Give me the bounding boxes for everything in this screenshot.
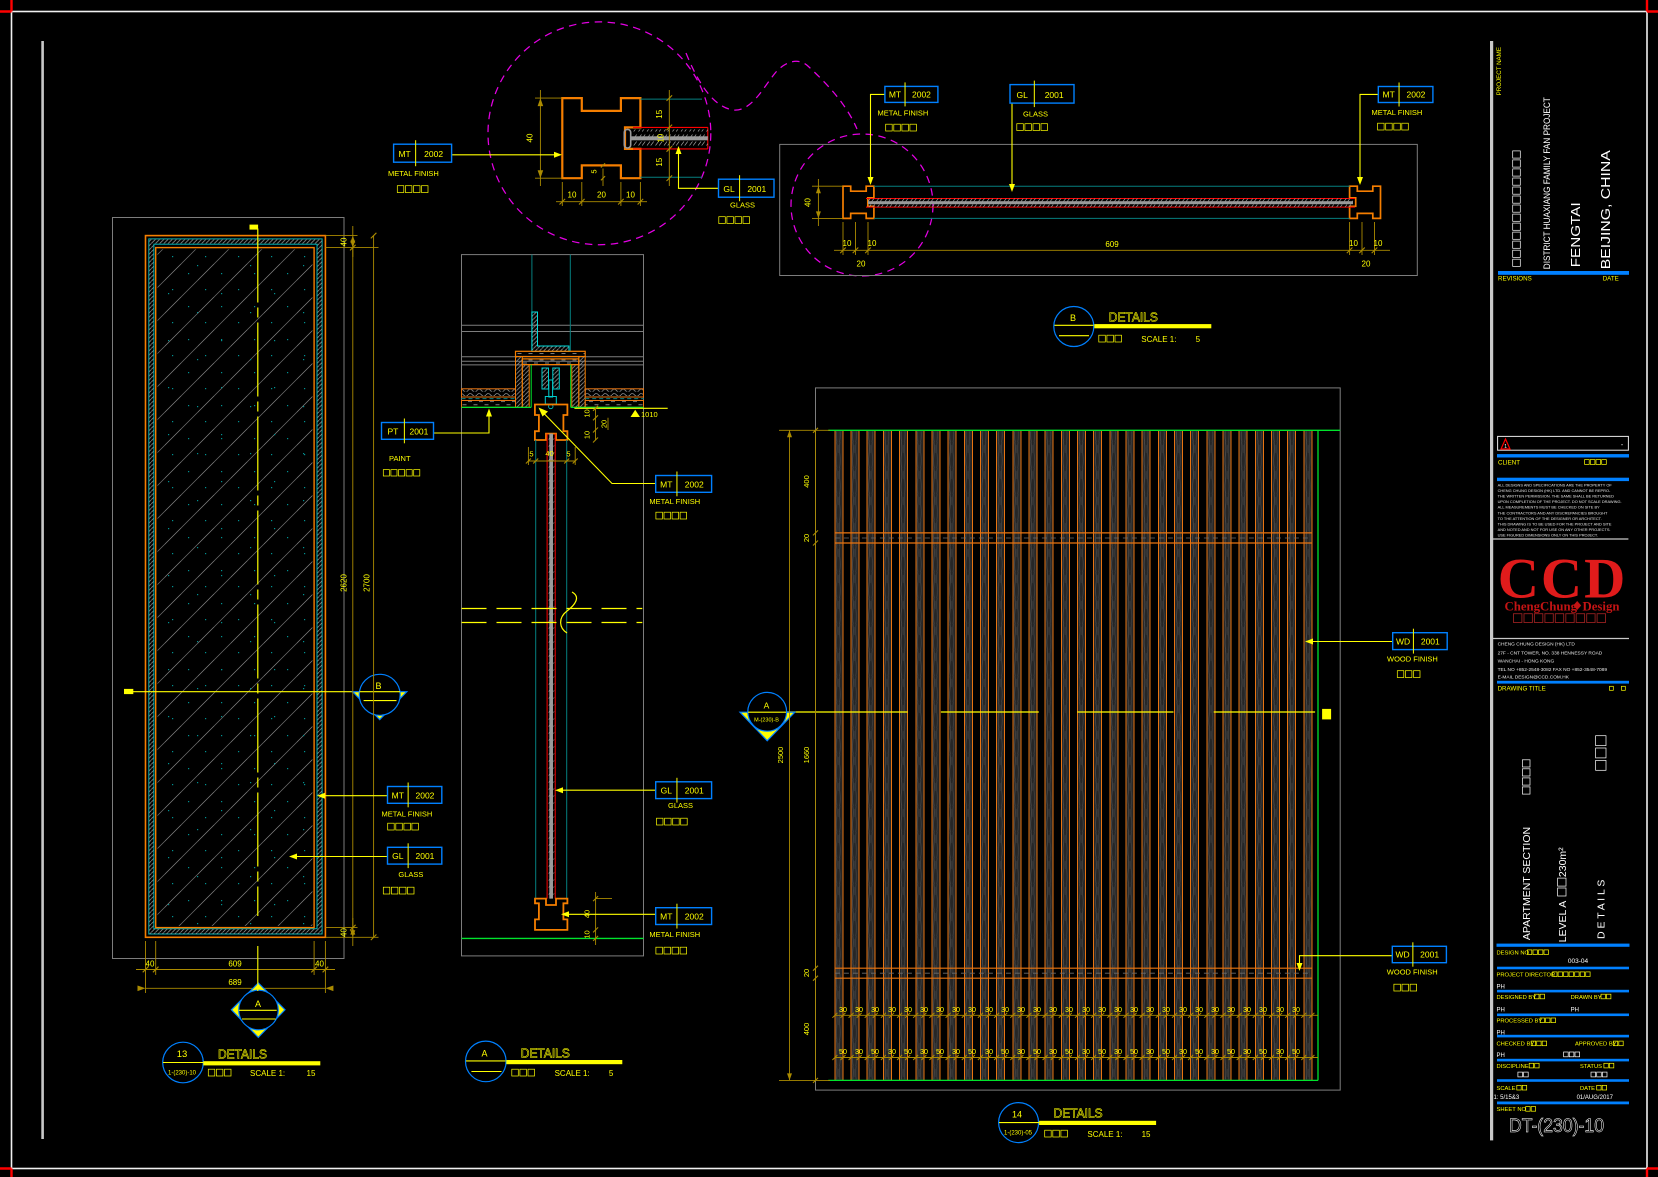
svg-text:10: 10	[1374, 239, 1383, 248]
B bottom dim line	[834, 249, 1390, 251]
svg-text:30: 30	[1179, 1047, 1187, 1056]
svg-text:2002: 2002	[685, 479, 704, 489]
svg-text:30: 30	[871, 1005, 879, 1014]
svg-text:WD: WD	[1395, 950, 1409, 960]
dim 689	[146, 987, 326, 989]
svg-text:400: 400	[802, 1023, 811, 1036]
panel cyan line inner	[154, 244, 317, 929]
section marker A on detail 14	[740, 712, 795, 741]
svg-text:30: 30	[936, 1005, 944, 1014]
svg-text:15: 15	[1142, 1130, 1151, 1139]
dim 2700 right of panel	[373, 236, 375, 938]
svg-text:40: 40	[315, 960, 324, 969]
detail 14 boundary rect	[816, 388, 1341, 1090]
dim 40 left enlarged	[535, 97, 562, 99]
client bar	[1497, 454, 1629, 457]
svg-text:2002: 2002	[1407, 90, 1426, 100]
leader GL 2001 detail13	[292, 856, 388, 858]
B glass core	[868, 201, 1353, 204]
svg-text:689: 689	[228, 978, 242, 987]
svg-text:50: 50	[1001, 1047, 1009, 1056]
leader MT 2002 top-rail	[545, 414, 656, 484]
svg-text:50: 50	[968, 1047, 976, 1056]
svg-text:30: 30	[1211, 1005, 1219, 1014]
dim 10/20/10 below ceiling	[595, 408, 597, 440]
svg-text:2002: 2002	[424, 149, 443, 159]
svg-text:30: 30	[1162, 1005, 1170, 1014]
green floor line	[462, 937, 644, 939]
svg-text:30: 30	[985, 1005, 993, 1014]
svg-text:10: 10	[583, 930, 592, 938]
svg-text:DETAILS: DETAILS	[1109, 311, 1158, 325]
svg-text:5: 5	[566, 450, 570, 459]
drawing title vertical texts	[1596, 736, 1606, 771]
svg-text:WANCHAI - HONG KONG: WANCHAI - HONG KONG	[1498, 659, 1555, 665]
elevation triangle 1010	[631, 410, 641, 417]
client box	[1498, 436, 1629, 450]
small magenta circle on detail B	[791, 134, 933, 276]
svg-text:DESIGN NO: DESIGN NO	[1497, 951, 1530, 957]
svg-text:15: 15	[655, 109, 664, 118]
svg-text:WOOD FINISH: WOOD FINISH	[1387, 655, 1438, 664]
svg-text:WOOD FINISH: WOOD FINISH	[1387, 968, 1438, 977]
green ceiling line right	[571, 406, 644, 408]
svg-text:20: 20	[600, 420, 609, 428]
orange ceiling band 1	[516, 351, 586, 356]
dim 40 top right of panel	[325, 235, 357, 237]
svg-text:30: 30	[920, 1047, 928, 1056]
B leader GL center	[1011, 103, 1013, 186]
svg-text:30: 30	[1243, 1047, 1251, 1056]
svg-text:PROJECT DIRECTOR: PROJECT DIRECTOR	[1497, 973, 1556, 979]
svg-text:2001: 2001	[409, 426, 428, 436]
orange leg left inner	[522, 365, 529, 408]
svg-text:50: 50	[1098, 1047, 1106, 1056]
leader curve to detail B	[686, 53, 857, 129]
svg-text:STATUS: STATUS	[1580, 1064, 1602, 1070]
glass teal edge lines	[535, 440, 537, 899]
svg-text:A: A	[764, 701, 770, 711]
svg-text:PH: PH	[1497, 1008, 1505, 1014]
centerline top flag	[250, 225, 259, 230]
svg-text:THE CONTRACTORS AND ANY DISCRE: THE CONTRACTORS AND ANY DISCREPANCIES BR…	[1498, 510, 1608, 515]
svg-text:BEIJING, CHINA: BEIJING, CHINA	[1599, 149, 1613, 269]
svg-text:30: 30	[1146, 1005, 1154, 1014]
hanger teal lines	[531, 255, 533, 352]
svg-text:5: 5	[1196, 335, 1201, 344]
svg-text:2001: 2001	[1421, 637, 1440, 647]
detail A boundary rect	[462, 255, 644, 956]
slat wood grain	[836, 431, 1311, 1079]
magnifier circle magenta	[488, 22, 711, 245]
upper block bottom line	[1490, 538, 1628, 540]
svg-text:USE FIGURED DIMENSIONS ONLY ON: USE FIGURED DIMENSIONS ONLY ON THIS PROJ…	[1498, 532, 1598, 537]
top rail orange profile	[535, 405, 568, 441]
svg-text:30: 30	[855, 1005, 863, 1014]
ceiling panel left band1	[462, 389, 516, 397]
svg-text:METAL FINISH: METAL FINISH	[382, 810, 433, 819]
svg-text:DT-(230)-10: DT-(230)-10	[1509, 1115, 1604, 1137]
ceiling panel right band2	[585, 401, 643, 408]
svg-text:1660: 1660	[802, 747, 811, 764]
svg-text:30: 30	[1292, 1005, 1300, 1014]
svg-text:GLASS: GLASS	[730, 201, 755, 210]
svg-text:THE WRITTEN PERMISSION. THE SA: THE WRITTEN PERMISSION. THE SAME SHALL B…	[1498, 494, 1614, 499]
svg-text:20: 20	[597, 191, 606, 200]
dim 10/20/10 bottom enlarged	[556, 201, 647, 203]
svg-text:30: 30	[1082, 1047, 1090, 1056]
svg-text:50: 50	[871, 1047, 879, 1056]
wood slats	[835, 431, 1312, 1081]
svg-text:30: 30	[1259, 1005, 1267, 1014]
svg-text:DETAILS: DETAILS	[521, 1047, 570, 1061]
B dim 40 left	[812, 185, 843, 187]
svg-text:20: 20	[802, 969, 811, 977]
extension lines bottom of panel	[145, 941, 147, 993]
svg-text:METAL FINISH: METAL FINISH	[388, 169, 439, 178]
svg-text:30: 30	[855, 1047, 863, 1056]
svg-text:SCALE 1:: SCALE 1:	[1087, 1130, 1122, 1139]
svg-text:10: 10	[843, 239, 852, 248]
detail B boundary rect	[780, 144, 1418, 275]
svg-text:PH: PH	[1497, 1053, 1505, 1059]
svg-text:003-04: 003-04	[1568, 958, 1589, 965]
glass stub core	[631, 136, 708, 140]
B glass red lines	[866, 198, 1355, 200]
svg-text:APPROVED BY: APPROVED BY	[1575, 1042, 1617, 1048]
panel cyan line outer	[149, 239, 322, 934]
svg-text:METAL FINISH: METAL FINISH	[878, 109, 929, 118]
dim chain left detail14	[815, 430, 817, 1080]
svg-text:30: 30	[1276, 1005, 1284, 1014]
svg-text:2001: 2001	[416, 851, 435, 861]
center section line through slats	[787, 711, 908, 713]
svg-text:40: 40	[526, 133, 535, 142]
svg-text:1-(230)-05: 1-(230)-05	[1004, 1131, 1033, 1137]
svg-text:20: 20	[857, 260, 866, 269]
svg-text:30: 30	[1114, 1047, 1122, 1056]
svg-text:PH: PH	[1571, 1008, 1579, 1014]
svg-text:GLASS: GLASS	[668, 801, 693, 810]
svg-text:MT: MT	[889, 89, 901, 99]
svg-text:B: B	[375, 681, 381, 691]
svg-text:2001: 2001	[747, 184, 766, 194]
dim 5/40/5	[528, 460, 575, 462]
svg-text:20: 20	[1362, 260, 1371, 269]
section line B-B through panel	[124, 691, 352, 693]
svg-text:609: 609	[1105, 240, 1119, 249]
svg-text:50: 50	[1162, 1047, 1170, 1056]
svg-text:40: 40	[545, 449, 553, 458]
teal dash strip left	[462, 398, 516, 400]
panel vertical centerline	[257, 229, 259, 917]
svg-text:609: 609	[228, 960, 242, 969]
svg-text:30: 30	[1082, 1005, 1090, 1014]
glass red lines	[546, 434, 548, 899]
svg-text:1: 1	[1504, 444, 1507, 450]
svg-text:REVISIONS: REVISIONS	[1498, 275, 1532, 282]
disclaimer bar	[1497, 478, 1629, 481]
svg-text:30: 30	[1049, 1005, 1057, 1014]
svg-text:PAINT: PAINT	[389, 454, 411, 463]
svg-text:MT: MT	[1383, 90, 1395, 100]
project name chinese vertical	[1513, 151, 1521, 267]
svg-text:40: 40	[146, 960, 155, 969]
bottom rail	[835, 967, 1312, 969]
svg-text:DISCIPLINE: DISCIPLINE	[1497, 1064, 1529, 1070]
svg-text:10: 10	[626, 191, 635, 200]
svg-text:CHENG CHUNG DESIGN (HK) LTD: CHENG CHUNG DESIGN (HK) LTD	[1498, 642, 1576, 648]
svg-text:1-(230)-10: 1-(230)-10	[168, 1071, 197, 1077]
svg-text:30: 30	[1098, 1005, 1106, 1014]
svg-text:SCALE: SCALE	[1497, 1086, 1516, 1092]
svg-text:FENGTAI: FENGTAI	[1569, 202, 1583, 267]
svg-text:2002: 2002	[416, 790, 435, 800]
svg-text:400: 400	[802, 475, 811, 488]
drawing title bar	[1497, 681, 1629, 684]
svg-text:15: 15	[307, 1069, 316, 1078]
warning triangle	[1501, 439, 1510, 449]
svg-text:2700: 2700	[362, 574, 371, 592]
svg-text:MT: MT	[398, 149, 410, 159]
svg-text:5: 5	[590, 169, 599, 173]
svg-text:30: 30	[1049, 1047, 1057, 1056]
revisions bar	[1498, 271, 1629, 275]
svg-text:30: 30	[1276, 1047, 1284, 1056]
svg-text:A: A	[255, 999, 261, 1009]
svg-text:PH: PH	[1497, 984, 1505, 990]
teal dash strip right	[585, 398, 643, 400]
svg-text:30: 30	[888, 1047, 896, 1056]
svg-text:30: 30	[1243, 1005, 1251, 1014]
svg-text:MT: MT	[392, 790, 404, 800]
leader MT 2002 enlarged	[452, 154, 557, 156]
red corner mark top-right	[1647, 0, 1658, 12]
svg-text:PROCESSED BY: PROCESSED BY	[1497, 1019, 1543, 1025]
svg-text:30: 30	[904, 1005, 912, 1014]
title detail 14	[999, 1103, 1039, 1143]
B left profile	[843, 186, 874, 218]
svg-text:2001: 2001	[1420, 950, 1439, 960]
svg-text:30: 30	[1227, 1005, 1235, 1014]
svg-text:14: 14	[1012, 1110, 1022, 1120]
svg-text:40: 40	[340, 237, 349, 246]
svg-text:Design: Design	[1583, 600, 1620, 614]
svg-text:GL: GL	[661, 786, 673, 796]
dim 40 bottom rail	[595, 892, 597, 945]
svg-text:ALL MEASUREMENTS MUST BE CHECK: ALL MEASUREMENTS MUST BE CHECKED ON SITE…	[1498, 505, 1600, 510]
bottom rail orange profile	[535, 899, 567, 930]
green frame lines	[828, 429, 1340, 431]
svg-text:50: 50	[839, 1047, 847, 1056]
svg-text:DATE: DATE	[1603, 275, 1619, 282]
svg-text:10: 10	[868, 239, 877, 248]
svg-text:SCALE 1:: SCALE 1:	[250, 1069, 285, 1078]
svg-text:M-(230)-B: M-(230)-B	[754, 718, 779, 724]
svg-text:27F - CNT TOWER, NO. 338 HENNE: 27F - CNT TOWER, NO. 338 HENNESSY ROAD	[1498, 651, 1603, 657]
glass core	[549, 434, 553, 899]
svg-text:5: 5	[609, 1069, 614, 1078]
svg-text:DATE: DATE	[1580, 1086, 1595, 1092]
svg-text:40: 40	[804, 198, 813, 207]
dim 2620 right of panel	[352, 248, 354, 928]
break squiggle	[561, 592, 577, 633]
break lines	[462, 608, 643, 610]
svg-text:10: 10	[583, 409, 592, 417]
svg-text:50: 50	[1227, 1047, 1235, 1056]
svg-text:50: 50	[1292, 1047, 1300, 1056]
red corner mark bottom-left	[0, 1169, 12, 1177]
svg-text:40: 40	[340, 928, 349, 937]
red corner mark bottom-right	[1647, 1169, 1658, 1177]
svg-text:10: 10	[583, 431, 592, 439]
svg-text:DETAILS: DETAILS	[1054, 1107, 1103, 1121]
svg-text:2002: 2002	[912, 89, 931, 99]
leader GL 2001 enlarged	[679, 150, 719, 188]
green ceiling line left	[462, 406, 532, 408]
svg-text:30: 30	[1211, 1047, 1219, 1056]
svg-text:E-MAIL DESIGN@CCD.COM.HK: E-MAIL DESIGN@CCD.COM.HK	[1498, 675, 1570, 681]
svg-text:50: 50	[1065, 1047, 1073, 1056]
svg-text:30: 30	[1033, 1005, 1041, 1014]
svg-text:GL: GL	[1016, 90, 1028, 100]
centerline end square	[1322, 709, 1331, 720]
orange ceiling band 2	[522, 359, 579, 365]
svg-text:30: 30	[1065, 1005, 1073, 1014]
glass stub red lines	[633, 126, 708, 128]
svg-text:30: 30	[1146, 1047, 1154, 1056]
leader PT 2001	[434, 412, 490, 433]
svg-text:50: 50	[904, 1047, 912, 1056]
svg-text:UPON COMPLETION OF THE PROJECT: UPON COMPLETION OF THE PROJECT. DO NOT S…	[1498, 499, 1622, 504]
svg-text:SCALE 1:: SCALE 1:	[1141, 335, 1176, 344]
svg-text:2001: 2001	[685, 786, 704, 796]
svg-text:TEL NO +852-2548-3082 FAX: TEL NO +852-2548-3082 FAX NO +852-3548-7…	[1498, 667, 1608, 673]
svg-text:GL: GL	[723, 184, 735, 194]
hk chinese logo text	[1514, 614, 1522, 623]
dim 40 bottom right of panel	[352, 918, 354, 946]
title detail B	[1054, 307, 1094, 347]
svg-text:2500: 2500	[776, 747, 785, 764]
svg-text:10: 10	[568, 191, 577, 200]
svg-text:CHENG CHUNG DESIGN (HK) LTD. A: CHENG CHUNG DESIGN (HK) LTD. AND CANNOT …	[1498, 488, 1611, 493]
svg-text:30: 30	[1195, 1005, 1203, 1014]
svg-text:SHEET NO: SHEET NO	[1497, 1107, 1527, 1113]
svg-text:MT: MT	[660, 479, 672, 489]
ceiling panel left band2	[462, 401, 516, 408]
svg-text:30: 30	[920, 1005, 928, 1014]
svg-text:METAL FINISH: METAL FINISH	[649, 497, 700, 506]
cyan clamp device	[542, 368, 549, 389]
panel hatch band	[149, 239, 322, 934]
leader WD 2001 lower	[1300, 956, 1393, 967]
panel inner orange frame	[156, 248, 314, 928]
svg-text:WD: WD	[1396, 637, 1410, 647]
teal face lines enlarged	[640, 98, 702, 100]
glass infill with diagonal hatch and wire dots	[157, 249, 312, 926]
svg-text:5: 5	[529, 450, 533, 459]
B leader MT right	[1360, 94, 1378, 181]
svg-text:13: 13	[177, 1049, 188, 1060]
leader WD 2001 upper	[1308, 641, 1393, 643]
svg-text:CLIENT: CLIENT	[1498, 459, 1520, 466]
B teal face lines	[874, 185, 1350, 187]
svg-text:DRAWING TITLE: DRAWING TITLE	[1498, 685, 1546, 692]
address box top line	[1490, 638, 1629, 640]
svg-text:METAL FINISH: METAL FINISH	[649, 930, 700, 939]
dim 5 notch	[602, 169, 604, 187]
dim 15/10/15 right enlarged	[668, 90, 670, 186]
svg-text:30: 30	[1001, 1005, 1009, 1014]
svg-text:30: 30	[985, 1047, 993, 1056]
svg-text:2620: 2620	[340, 574, 349, 592]
cyan angle bracket	[532, 312, 569, 352]
svg-text:30: 30	[1130, 1005, 1138, 1014]
svg-text:METAL FINISH: METAL FINISH	[1372, 108, 1423, 117]
green liner right	[570, 365, 572, 408]
ceiling panel right band1	[585, 389, 643, 397]
leader MT 2002 detail13	[320, 795, 388, 797]
svg-text:15: 15	[655, 157, 664, 166]
svg-text:THIS DRAWING IS TO BE USED FOR: THIS DRAWING IS TO BE USED FOR THE PROJE…	[1498, 521, 1612, 526]
svg-text:GLASS: GLASS	[1023, 110, 1048, 119]
red corner mark top-left	[0, 0, 12, 12]
detail 13 boundary rect	[113, 218, 345, 959]
section marker B at panel	[353, 692, 407, 720]
svg-text:B: B	[1070, 313, 1076, 323]
svg-text:1: 5/15&3: 1: 5/15&3	[1494, 1095, 1520, 1101]
orange leg left outer	[516, 357, 523, 408]
svg-text:SCALE 1:: SCALE 1:	[555, 1069, 590, 1078]
top rail	[835, 532, 1312, 534]
design no bar	[1497, 944, 1630, 947]
svg-text:50: 50	[936, 1047, 944, 1056]
orange leg right outer	[579, 357, 585, 408]
svg-text:30: 30	[1017, 1005, 1025, 1014]
title detail 13	[163, 1042, 204, 1083]
svg-text:MT: MT	[660, 912, 672, 922]
orange leg right inner	[572, 365, 579, 408]
svg-text:10: 10	[1349, 239, 1358, 248]
svg-text:50: 50	[1033, 1047, 1041, 1056]
svg-text:A: A	[481, 1049, 487, 1059]
B right profile	[1350, 186, 1381, 218]
left fold bar	[41, 41, 44, 1139]
green liner left	[530, 365, 532, 408]
svg-text:30: 30	[1017, 1047, 1025, 1056]
ceiling slab lines	[462, 324, 644, 326]
svg-text:PT: PT	[388, 426, 399, 436]
svg-text:ALL DESIGNS AND SPECIFICATIONS: ALL DESIGNS AND SPECIFICATIONS ARE THE P…	[1498, 483, 1613, 488]
title block fold bar	[1490, 41, 1493, 1140]
mullion H profile enlarged	[562, 98, 640, 178]
svg-text:DETAILS: DETAILS	[218, 1048, 267, 1062]
svg-text:50: 50	[1195, 1047, 1203, 1056]
dim row 40/609/40	[136, 969, 335, 971]
svg-text:AND NOTED AND NOT FOR USE ON A: AND NOTED AND NOT FOR USE ON ANY OTHER P…	[1498, 527, 1611, 532]
svg-text:PROJECT NAME: PROJECT NAME	[1496, 47, 1503, 95]
svg-text:APARTMENT SECTION: APARTMENT SECTION	[1521, 827, 1533, 940]
svg-text:ChengChung: ChengChung	[1505, 600, 1578, 614]
svg-text:CHECKED BY: CHECKED BY	[1497, 1042, 1535, 1048]
leader GL 2001 glass	[558, 789, 656, 791]
svg-text:30: 30	[952, 1047, 960, 1056]
svg-text:1010: 1010	[641, 410, 658, 419]
svg-text:30: 30	[1114, 1005, 1122, 1014]
svg-text:20: 20	[802, 534, 811, 542]
leader MT 2002 bottom rail	[564, 913, 656, 915]
svg-text:GL: GL	[392, 851, 404, 861]
